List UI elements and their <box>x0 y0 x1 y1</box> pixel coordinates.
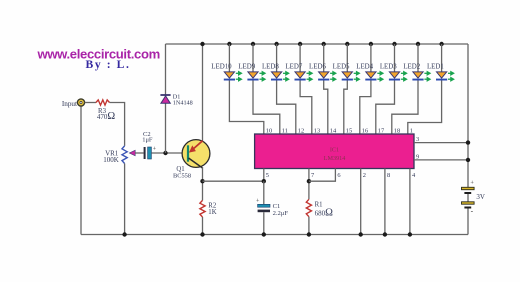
svg-text:680Ω: 680Ω <box>315 207 334 218</box>
svg-text:1K: 1K <box>208 209 216 216</box>
svg-text:LED3: LED3 <box>380 64 397 71</box>
junction LED3-toprail <box>392 42 396 46</box>
wire R3 to VR1 corner <box>110 103 125 146</box>
wire pin9 to V+ <box>414 159 468 161</box>
LED8 light arrows <box>283 72 289 82</box>
LED LED8 <box>271 72 282 81</box>
svg-text:2.2μF: 2.2μF <box>273 210 289 217</box>
LED LED6 <box>318 72 329 81</box>
Q1 base bar <box>187 145 189 161</box>
LED LED10 <box>224 72 235 81</box>
LED2 light arrows <box>424 72 430 82</box>
wire LED5 anode <box>346 44 348 72</box>
wire emitter drop <box>202 44 204 141</box>
wire VR1 to ground rail <box>124 164 126 235</box>
svg-text:LM3914: LM3914 <box>324 155 346 162</box>
junction R2-ground <box>200 232 204 236</box>
svg-text:R1: R1 <box>315 201 323 208</box>
Q1 emitter arrow <box>189 141 203 153</box>
wire C2 to base node <box>151 152 188 154</box>
svg-text:LED6: LED6 <box>309 64 326 71</box>
junction LED2-toprail <box>416 42 420 46</box>
wire pin3 to V+ <box>414 142 468 144</box>
wire pin2 to ground <box>360 169 362 235</box>
battery BT1 3V <box>462 180 475 215</box>
wire LED1 cathode to pin <box>408 81 442 135</box>
wire LED2 cathode to pin <box>392 81 418 135</box>
wire input to R3 <box>85 102 96 104</box>
LED LED7 <box>295 72 306 81</box>
LED10 light arrows <box>236 72 242 82</box>
LED3 light arrows <box>401 72 407 82</box>
wire LED6 anode <box>323 44 325 72</box>
wire pin8 to ground <box>384 169 386 235</box>
svg-text:2: 2 <box>363 172 366 179</box>
junction LED6-toprail <box>322 42 326 46</box>
op-amp IC1 LM3914 body <box>255 134 414 169</box>
svg-text:Input: Input <box>62 100 77 108</box>
svg-text:LED8: LED8 <box>262 64 279 71</box>
junction C1-ground <box>262 232 266 236</box>
wire pin5 <box>263 169 265 182</box>
wire LED9 anode <box>252 44 254 72</box>
wire left input drop <box>80 106 82 235</box>
wire LED10 cathode to pin <box>229 81 263 135</box>
svg-text:LED5: LED5 <box>333 64 350 71</box>
junction R1-ground <box>307 232 311 236</box>
svg-text:BC558: BC558 <box>173 172 191 179</box>
junction LED8-toprail <box>274 42 278 46</box>
LED LED3 <box>389 72 400 81</box>
wire collector to pin5 <box>203 180 264 182</box>
svg-text:6: 6 <box>337 172 340 179</box>
junction pin8-ground <box>383 232 387 236</box>
LED9 light arrows <box>259 72 265 82</box>
wire LED4 anode <box>370 44 372 72</box>
junction emitter-toprail <box>200 42 204 46</box>
junction pin9-rail <box>466 158 470 162</box>
LED LED9 <box>247 72 258 81</box>
junction LED7-toprail <box>298 42 302 46</box>
input jack J1 <box>77 99 84 106</box>
junction LED1-toprail <box>439 42 443 46</box>
wire LED4 cathode to pin <box>360 81 371 135</box>
junction collector node <box>200 179 204 183</box>
wire LED9 cathode to pin <box>253 81 280 135</box>
wire LED1 anode <box>441 44 443 72</box>
wire R1 to ground <box>308 217 310 235</box>
svg-text:1N4148: 1N4148 <box>173 100 193 107</box>
wire collector drop <box>202 167 204 200</box>
LED LED5 <box>342 72 353 81</box>
LED5 light arrows <box>354 72 360 82</box>
VR1 wiper arrow <box>129 150 135 156</box>
LED LED1 <box>436 72 447 81</box>
wire wiper to C2 <box>135 152 143 154</box>
wire LED3 anode <box>394 44 396 72</box>
svg-text:LED4: LED4 <box>356 64 373 71</box>
svg-text:By : L.: By : L. <box>86 58 131 71</box>
wire LED7 cathode to pin <box>300 81 312 135</box>
capacitor C1 <box>256 199 270 213</box>
wire LED7 anode <box>299 44 301 72</box>
wire pin6 jog to pin7 <box>309 169 336 182</box>
diode D1 <box>160 95 170 103</box>
svg-text:LED10: LED10 <box>211 64 232 71</box>
junction VR1-ground <box>122 232 126 236</box>
wire LED5 cathode to pin <box>344 81 348 135</box>
LED7 light arrows <box>307 72 313 82</box>
wire right supply rail upper <box>467 44 469 187</box>
wire top supply rail <box>166 43 469 45</box>
svg-text:C1: C1 <box>273 203 281 210</box>
svg-text:3V: 3V <box>476 193 485 201</box>
svg-text:100K: 100K <box>103 156 119 164</box>
transistor Q1 body <box>182 140 210 168</box>
wire D1 branch <box>165 44 167 153</box>
junction LED5-toprail <box>345 42 349 46</box>
wire LED2 anode <box>417 44 419 72</box>
wire R2 to ground <box>202 217 204 235</box>
resistor R3 <box>96 100 110 105</box>
resistor R2 <box>200 200 205 217</box>
svg-text:8: 8 <box>387 172 390 179</box>
wire LED10 anode <box>228 44 230 72</box>
LED1 light arrows <box>448 72 454 82</box>
LED6 light arrows <box>330 72 336 82</box>
svg-text:IC1: IC1 <box>330 146 339 153</box>
junction LED4-toprail <box>369 42 373 46</box>
svg-text:9: 9 <box>416 154 419 161</box>
wire LED3 cathode to pin <box>376 81 395 135</box>
Q1 collector diagonal <box>189 158 203 168</box>
junction LED9-toprail <box>251 42 255 46</box>
wire pin5 to C1 <box>263 181 265 204</box>
potentiometer VR1 <box>122 146 127 164</box>
LED LED2 <box>412 72 423 81</box>
junction pin2-ground <box>359 232 363 236</box>
wire LED8 cathode to pin <box>277 81 296 135</box>
svg-text:LED2: LED2 <box>403 64 420 71</box>
wire pin4 to ground <box>409 169 411 235</box>
svg-text:5: 5 <box>266 172 269 179</box>
capacitor C2 <box>144 146 157 159</box>
LED4 light arrows <box>377 72 383 82</box>
wire LED6 cathode to pin <box>324 81 328 135</box>
svg-text:1μF: 1μF <box>142 136 153 143</box>
svg-text:LED7: LED7 <box>285 64 302 71</box>
wire pin7 <box>308 169 310 200</box>
svg-text:3: 3 <box>416 136 419 143</box>
svg-text:+: + <box>470 180 474 187</box>
wire bottom ground rail <box>81 234 468 236</box>
wire C1 to ground <box>263 212 265 234</box>
junction pin3-rail <box>466 140 470 144</box>
svg-text:470Ω: 470Ω <box>97 111 116 122</box>
junction pin5 node <box>262 179 266 183</box>
junction LED10-toprail <box>227 42 231 46</box>
junction pin4-ground <box>408 232 412 236</box>
junction pin7 node <box>307 179 311 183</box>
wire LED8 anode <box>276 44 278 72</box>
node base junction <box>163 151 167 155</box>
LED LED4 <box>365 72 376 81</box>
svg-text:LED9: LED9 <box>238 64 255 71</box>
svg-text:LED1: LED1 <box>427 64 444 71</box>
resistor R1 <box>306 199 311 216</box>
wire right rail lower <box>467 209 469 235</box>
